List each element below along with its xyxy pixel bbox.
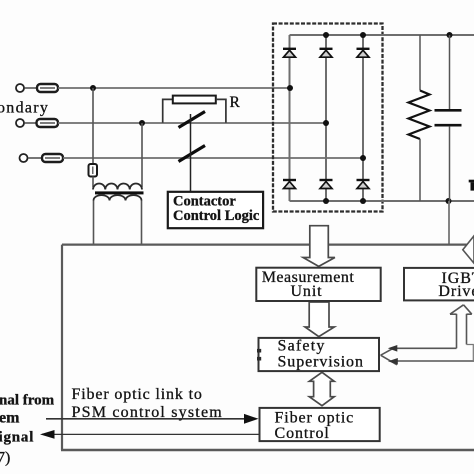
fuse F2 [37,119,59,127]
terminal T3 [20,154,28,162]
measurement unit box [256,268,380,301]
svg-text:Control Logic: Control Logic [173,208,260,224]
diode D5 bottom [320,180,333,189]
fuse F3 [42,154,63,162]
svg-text:nal from: nal from [0,393,55,409]
svg-text:ignal: ignal [0,430,34,446]
diode D2 top [320,49,333,57]
wire DC bottom rail [290,200,474,202]
svg-text:ondary: ondary [0,100,49,117]
capacitor C1 plates [435,109,462,112]
converter unit enclosure bottom [61,449,474,451]
arrowhead into fiber box [244,414,259,424]
svg-text:Fiber optic: Fiber optic [275,410,355,427]
wire load resistor top [419,35,421,91]
rectifier bridge box [273,24,383,212]
resistor R-load zigzag [409,91,430,140]
node dot phase1 entry [287,85,293,91]
svg-text:Control: Control [275,425,330,442]
transformer TR1 primary winding [93,183,142,189]
wire signal out [42,433,260,435]
fiber optic control box [260,408,380,441]
wire rectifier leg1 [289,35,291,201]
diode D3 top [357,49,370,57]
svg-text:em: em [0,410,20,427]
wire [92,177,94,188]
transformer TR1 secondary winding [94,195,142,200]
node dots rails [323,32,329,38]
hollow arrow measurement to safety [305,302,334,337]
svg-text:Fiber optic link to: Fiber optic link to [72,386,203,403]
wire phase2 [58,122,326,124]
svg-text:R: R [230,94,241,111]
label fragment I (cut off at edge) [469,180,474,191]
hollow arrow rectifier to measurement [303,226,335,267]
svg-text:Driver: Driver [438,283,474,300]
arrowhead signal out [40,430,55,439]
svg-text:Supervision: Supervision [278,354,364,371]
wire [25,87,38,89]
hollow arrow from right edge (cut) [463,236,474,263]
diode D1 top [283,49,296,57]
wire [25,122,37,124]
wire rectifier leg3 [362,35,364,201]
transformer TR1 core [95,191,144,194]
wire resistor bypass left stub [163,99,173,122]
wire resistor bypass right stub [216,99,226,122]
wire transformer primary left [92,88,94,164]
svg-text:Safety: Safety [278,338,326,355]
hollow double arrow safety/fiber [309,372,334,405]
small arrowhead upper [388,345,398,352]
wire phase3 [63,157,363,159]
wire [28,157,42,159]
terminal T1 [16,84,24,92]
wire load resistor bottom [419,139,421,201]
edge vertical [467,345,474,362]
svg-text:7): 7) [0,450,10,467]
contactor control logic box [168,192,263,228]
wire secondary left down [93,201,95,245]
resistor R [173,96,216,104]
wire link lower from right [397,360,474,362]
IGBT driver box [404,268,474,301]
safety supervision box [259,338,380,371]
diode D6 bottom [357,180,370,189]
node dot phase1/transformer [90,85,96,91]
contactor switch S2 [179,146,206,162]
svg-text:Unit: Unit [290,283,322,300]
hollow arrowhead into safety [381,347,397,365]
node dot phase2/transformer [139,120,145,126]
converter unit enclosure left [61,245,63,450]
wire secondary right down [141,201,143,245]
fuse F4 (small series component) [89,164,98,177]
node dot phase3 entry [360,155,366,161]
wire capacitor top [449,35,451,109]
wire signal in [46,418,246,420]
small arrowhead lower [388,358,398,365]
contactor switch S1 [179,112,206,128]
wire DC rail to converter unit [448,201,450,245]
converter unit enclosure top [62,244,474,246]
node dot phase2 entry [323,120,329,126]
wire phase1 [58,87,290,89]
wire link upper to safety [396,347,457,349]
wire transformer primary right [141,123,143,187]
terminal T2 [16,119,24,127]
wire contactor control link [190,114,192,192]
diode D4 bottom [283,180,296,189]
fuse F1 [37,84,58,92]
wire capacitor bottom [449,126,451,201]
wire rectifier leg2 [325,35,327,201]
hollow arrow up to IGBT driver [450,305,472,349]
wire DC top rail [290,34,474,36]
